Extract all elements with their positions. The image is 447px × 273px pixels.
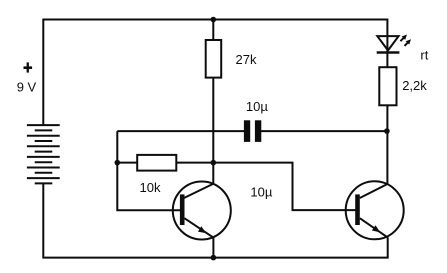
svg-text:2,2k: 2,2k [402, 78, 427, 93]
svg-text:10µ: 10µ [250, 184, 272, 199]
svg-text:27k: 27k [236, 52, 257, 67]
svg-text:10k: 10k [140, 180, 161, 195]
svg-text:rt: rt [420, 47, 428, 62]
svg-text:9 V: 9 V [17, 79, 37, 94]
svg-text:10µ: 10µ [246, 99, 268, 114]
